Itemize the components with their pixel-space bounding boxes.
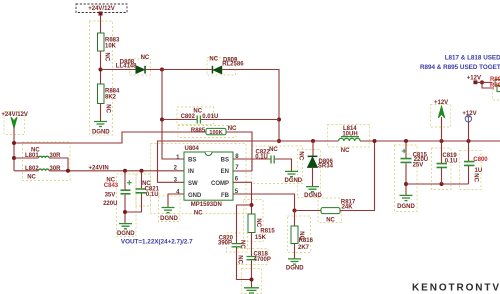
wire square to R683 bbox=[100, 16, 102, 34]
svg-text:NC: NC bbox=[237, 255, 243, 264]
highlight box C822 bbox=[252, 146, 303, 184]
wire arrow to L801/L802 bbox=[13, 127, 15, 171]
node junction C815 bbox=[404, 139, 408, 143]
wire L801 right corner bbox=[49, 158, 68, 171]
svg-text:DGND: DGND bbox=[117, 231, 135, 237]
node junction C802 left bbox=[160, 118, 164, 122]
highlight box D809 bbox=[207, 58, 236, 76]
svg-text:R815: R815 bbox=[260, 228, 275, 234]
wire L801 left bbox=[14, 157, 39, 159]
diode D809 RL2586 bbox=[212, 66, 222, 74]
resistor R817 24K bbox=[321, 208, 340, 214]
highlight box C820 bbox=[227, 233, 248, 252]
svg-text:SR34: SR34 bbox=[318, 163, 334, 169]
off-page connector +24V/12V dashed box bbox=[76, 4, 127, 13]
wire ground bus bbox=[406, 183, 469, 185]
wire to R894 bbox=[478, 81, 493, 83]
ground DGND under C815 bbox=[400, 195, 413, 200]
ground DGND under C843 bbox=[119, 224, 132, 229]
wire COMP to C820 bbox=[237, 205, 252, 243]
wire to C843 bbox=[124, 171, 126, 190]
svg-text:8K2: 8K2 bbox=[105, 95, 117, 101]
wire to C821 bbox=[141, 171, 143, 188]
svg-text:C800: C800 bbox=[473, 157, 488, 163]
highlight box C800 bbox=[460, 151, 482, 190]
svg-text:R89: R89 bbox=[490, 83, 500, 89]
svg-text:NC: NC bbox=[269, 147, 278, 153]
wire +12V port to rail bbox=[468, 122, 470, 141]
diode D808 LL4148 bbox=[136, 66, 146, 74]
capacitor C821 0.1U bbox=[136, 189, 147, 193]
svg-text:0.1U: 0.1U bbox=[255, 154, 268, 160]
wire node to D808 bbox=[101, 69, 137, 71]
highlight box input arrow bbox=[4, 112, 25, 135]
highlight box C818 bbox=[237, 249, 269, 265]
highlight box DGND pin4 bbox=[159, 196, 181, 222]
capacitor C843 220U (electrolytic, polarity +) bbox=[121, 180, 132, 194]
ground under C818 bbox=[244, 288, 259, 293]
svg-text:NC: NC bbox=[341, 148, 350, 154]
wire L802 left bbox=[14, 170, 39, 172]
svg-text:MP1593DN: MP1593DN bbox=[191, 202, 222, 208]
svg-text:NC: NC bbox=[228, 126, 237, 132]
highlight box R816 bbox=[288, 216, 311, 253]
node junction C843/C821 bottom bbox=[123, 210, 127, 214]
node junction input/R885 bbox=[12, 141, 16, 145]
wire +12V arrow to rail bbox=[441, 117, 443, 141]
svg-text:U804: U804 bbox=[185, 146, 200, 152]
svg-text:GND: GND bbox=[188, 193, 202, 199]
svg-text:NC: NC bbox=[239, 240, 245, 249]
resistor R815 bbox=[248, 214, 255, 233]
resistor R895 (clipped) bbox=[497, 86, 500, 92]
highlight box fragment top right bbox=[493, 90, 500, 101]
highlight box bottom ground bbox=[242, 269, 262, 294]
svg-text:NC: NC bbox=[31, 148, 40, 154]
svg-text:220U: 220U bbox=[103, 201, 117, 207]
capacitor C819 0.1U bbox=[437, 164, 448, 168]
wire input to R885 bbox=[14, 132, 206, 143]
node junction FB bbox=[293, 209, 297, 213]
highlight box C802 bbox=[177, 107, 214, 125]
svg-text:L801: L801 bbox=[25, 153, 39, 159]
resistor R885 100K bbox=[206, 128, 226, 134]
svg-text:0.1U: 0.1U bbox=[445, 158, 458, 164]
svg-text:DGND: DGND bbox=[284, 178, 302, 184]
svg-text:C802: C802 bbox=[181, 114, 196, 120]
node junction C843 bbox=[123, 169, 127, 173]
svg-text:24K: 24K bbox=[342, 204, 354, 210]
node junction input/L801 bbox=[12, 156, 16, 160]
power arrow +24V/12V (down) bbox=[11, 117, 17, 128]
wire C843 bottom bbox=[124, 195, 126, 223]
svg-text:DGND: DGND bbox=[92, 130, 110, 136]
svg-text:BS: BS bbox=[188, 158, 196, 164]
svg-text:+24V/12V: +24V/12V bbox=[88, 6, 115, 12]
wire FB to R816 bbox=[294, 211, 296, 227]
svg-text:15K: 15K bbox=[255, 235, 267, 241]
svg-text:R885: R885 bbox=[191, 128, 206, 134]
node junction +12V feed bbox=[480, 80, 484, 84]
wire BS vertical bbox=[162, 70, 184, 160]
wire rail to C800 bbox=[468, 141, 470, 161]
svg-text:390P: 390P bbox=[218, 241, 232, 247]
svg-text:+24V/12V: +24V/12V bbox=[1, 112, 28, 118]
capacitor C820 390P bbox=[232, 244, 242, 247]
node junction C818/C820 ground bbox=[250, 278, 254, 282]
wire R683 to R884 bbox=[100, 51, 102, 84]
svg-text:SW: SW bbox=[188, 181, 198, 187]
highlight box L814 bbox=[328, 125, 370, 148]
svg-text:+12V: +12V bbox=[434, 100, 448, 106]
wire pin8 BS to C822 bbox=[233, 158, 270, 160]
svg-text:DGND: DGND bbox=[160, 216, 178, 222]
ground DGND under R816 bbox=[288, 259, 301, 264]
node junction C819 bbox=[440, 139, 444, 143]
wire R817 to output rail bbox=[340, 141, 375, 211]
node junction D808/D809/BS bbox=[160, 68, 164, 72]
wire pin5 FB right bbox=[233, 194, 295, 211]
highlight box +12V arrow bbox=[431, 105, 451, 128]
node junction R683/R884/D808 bbox=[99, 68, 103, 72]
svg-text:R816: R816 bbox=[299, 238, 314, 244]
capacitor C802 0.01U bbox=[197, 116, 200, 124]
pin square of +24V/12V connector bbox=[99, 12, 103, 16]
wire R884 to ground bbox=[100, 104, 102, 122]
highlight box D806 bbox=[298, 150, 321, 198]
svg-text:RL2586: RL2586 bbox=[222, 61, 244, 67]
wire to R895 bbox=[482, 84, 494, 88]
inductor L814 10UH bbox=[339, 138, 361, 141]
svg-text:COMP: COMP bbox=[211, 181, 229, 187]
wire C821 bottom joins C843 bbox=[125, 194, 142, 213]
svg-text:NC: NC bbox=[194, 211, 203, 217]
svg-text:NC: NC bbox=[326, 217, 335, 223]
highlight box R817 bbox=[318, 198, 342, 223]
ground DGND pin4 bbox=[162, 208, 175, 213]
svg-text:R894 & R895 USED TOGET: R894 & R895 USED TOGET bbox=[420, 64, 500, 71]
svg-text:35V: 35V bbox=[105, 192, 116, 198]
svg-text:NC: NC bbox=[105, 104, 111, 113]
wire C820 bottom to ground node bbox=[237, 247, 252, 279]
svg-text:NC: NC bbox=[104, 53, 110, 62]
inductor L801 30R bbox=[39, 156, 50, 158]
svg-text:NC: NC bbox=[27, 175, 36, 181]
wire C822 to ground bbox=[275, 159, 292, 171]
svg-text:LL4148: LL4148 bbox=[116, 63, 137, 69]
diode D806 SR34 (schottky to ground) bbox=[308, 156, 318, 168]
svg-text:DGND: DGND bbox=[286, 265, 304, 271]
wire FB to R817 bbox=[295, 210, 322, 212]
svg-text:BS: BS bbox=[221, 158, 229, 164]
wire D806 anode to ground bbox=[312, 167, 314, 186]
highlight box D808 bbox=[130, 59, 151, 75]
wire C818 to ground bbox=[251, 260, 253, 287]
wire D808 to node bbox=[146, 69, 162, 71]
svg-text:+24VIN: +24VIN bbox=[89, 165, 109, 171]
wire pin4 GND to ground bbox=[168, 194, 184, 207]
svg-text:NC: NC bbox=[209, 56, 218, 62]
highlight box L801 L802 bbox=[23, 142, 71, 181]
wire C819 bottom bbox=[441, 168, 443, 184]
wire pin6 COMP down bbox=[233, 182, 252, 214]
node junction R817/rail bbox=[373, 139, 377, 143]
svg-text:EN: EN bbox=[221, 169, 229, 175]
wire C800 bottom bbox=[468, 166, 470, 184]
node junction rail x279 bbox=[277, 139, 281, 143]
svg-text:L802: L802 bbox=[25, 166, 39, 172]
highlight box U804 bbox=[151, 144, 247, 214]
svg-text:NC: NC bbox=[255, 218, 261, 227]
wire R885 to EN bbox=[226, 132, 252, 171]
svg-text:25V: 25V bbox=[413, 162, 424, 168]
node junction C821 bbox=[140, 169, 144, 173]
highlight box R683/R884 column bbox=[90, 21, 113, 135]
wire pin3 SW up to rail bbox=[158, 141, 339, 182]
node junction C819/ground wire bbox=[440, 182, 444, 186]
svg-text:DGND: DGND bbox=[304, 193, 322, 199]
svg-text:FB: FB bbox=[221, 193, 230, 199]
wire rail to D806 cathode bbox=[312, 141, 314, 156]
wire C815 bottom bbox=[405, 163, 407, 195]
capacitor C800 1U bbox=[464, 162, 475, 166]
wire D809 to SW rail corner bbox=[222, 70, 279, 142]
resistor R894 (clipped) bbox=[495, 80, 500, 86]
highlight box C843 bbox=[117, 174, 137, 237]
wire rail to C819 bbox=[441, 141, 443, 163]
svg-text:L817 & L818 USED NO: L817 & L818 USED NO bbox=[445, 55, 500, 62]
wire rail right of L814 bbox=[360, 140, 500, 142]
ground DGND under R884 bbox=[94, 122, 107, 127]
capacitor C822 0.1U bbox=[271, 156, 274, 164]
svg-text:C843: C843 bbox=[104, 183, 119, 189]
node junction C800 bbox=[467, 139, 471, 143]
svg-text:100K: 100K bbox=[209, 130, 222, 136]
node junction C802 right bbox=[277, 118, 281, 122]
wire rail to C815 bbox=[405, 141, 407, 158]
node junction C815/ground wire bbox=[404, 182, 408, 186]
svg-text:4700P: 4700P bbox=[254, 257, 271, 263]
svg-text:KENOTRONTV: KENOTRONTV bbox=[412, 283, 500, 294]
highlight box C815 bbox=[395, 145, 418, 212]
highlight box C819 bbox=[432, 148, 452, 190]
svg-text:NC: NC bbox=[297, 151, 303, 160]
node junction D806 on rail bbox=[311, 139, 315, 143]
svg-text:0.1U: 0.1U bbox=[146, 192, 159, 198]
wire L802 to pin2 IN bbox=[49, 170, 184, 172]
capacitor C818 4700P bbox=[247, 257, 257, 260]
wire R816 to ground bbox=[294, 244, 296, 259]
svg-text:NC: NC bbox=[141, 55, 150, 61]
highlight box R815 bbox=[244, 200, 264, 242]
ground DGND under C822 bbox=[285, 171, 298, 176]
resistor R816 2K7 bbox=[291, 226, 298, 244]
resistor R683 bbox=[98, 33, 105, 51]
highlight box R885 bbox=[178, 126, 236, 138]
svg-text:DGND: DGND bbox=[397, 204, 415, 210]
wire node to D809 bbox=[162, 69, 212, 71]
node junction COMP network bbox=[250, 203, 254, 207]
svg-text:IN: IN bbox=[188, 169, 194, 175]
svg-text:2K7: 2K7 bbox=[298, 245, 310, 251]
highlight box C821 bbox=[136, 174, 151, 206]
op-amp U804 MP1593DN (IC body) bbox=[184, 152, 233, 200]
capacitor C815 220U 25V (electrolytic) bbox=[401, 149, 412, 163]
svg-text:VOUT=1.22X(24+2.7)/2.7: VOUT=1.22X(24+2.7)/2.7 bbox=[121, 238, 193, 245]
inductor L802 30R bbox=[39, 169, 50, 171]
svg-text:R89: R89 bbox=[490, 77, 500, 83]
svg-text:NC: NC bbox=[473, 173, 479, 182]
wire C802 right bbox=[201, 119, 279, 121]
svg-text:0.01U: 0.01U bbox=[202, 114, 218, 120]
ground DGND under D806 bbox=[306, 187, 319, 192]
node junction L801/L802 bbox=[66, 169, 70, 173]
resistor R884 bbox=[98, 84, 105, 104]
svg-text:10K: 10K bbox=[105, 44, 117, 50]
wire C802 left bbox=[162, 119, 197, 121]
wire R815 to C818 bbox=[251, 233, 253, 257]
